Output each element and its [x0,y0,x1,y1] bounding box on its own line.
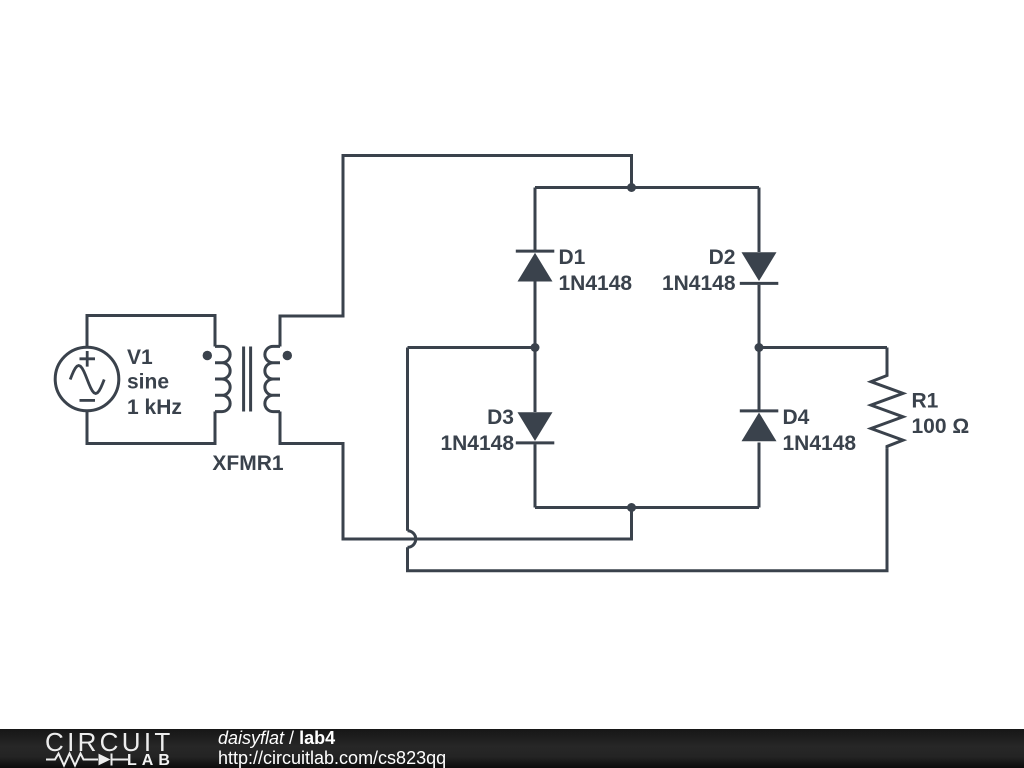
svg-text:1 kHz: 1 kHz [127,396,182,419]
node right mid junction [755,343,764,352]
wire D2 bottom to D4 top [758,285,761,410]
svg-text:R1: R1 [912,390,939,413]
svg-text:D4: D4 [783,406,810,429]
diode D2 [742,252,777,281]
wire secondary bottom to bridge bottom node [280,412,632,540]
wire D1 top lead [534,188,537,251]
svg-text:1N4148: 1N4148 [662,272,736,295]
transformer secondary phase dot [283,351,292,360]
wire hop over crossing [408,531,416,548]
resistor R1 [871,348,903,449]
wire V1 top to primary coil [87,316,215,348]
transformer XFMR1 secondary winding [265,346,280,411]
transformer core [244,347,251,412]
wire D3 bottom lead [534,444,537,507]
transformer XFMR1 primary winding [215,346,230,411]
diode D3 [518,412,553,441]
svg-text:daisyflat / lab4: daisyflat / lab4 [218,728,335,748]
wire left mid rail to node [408,346,536,349]
diode D4 [742,413,777,442]
wire secondary top to bridge top [280,156,632,347]
node bridge bottom junction [627,503,636,512]
wire right mid rail to R1 [759,346,887,349]
wire bridge top rail [535,186,759,189]
svg-text:XFMR1: XFMR1 [212,452,283,475]
wire D2 top lead [758,188,761,253]
logo resistor-diode symbol [46,754,128,766]
node bridge top junction [627,183,636,192]
wire D1 bottom to D3 top [534,282,537,413]
svg-text:1N4148: 1N4148 [783,432,857,455]
transformer primary phase dot [203,351,212,360]
node left mid junction [531,343,540,352]
svg-text:1N4148: 1N4148 [559,272,633,295]
svg-text:D1: D1 [559,246,586,269]
svg-text:100 Ω: 100 Ω [912,415,970,438]
svg-text:http://circuitlab.com/cs823qq: http://circuitlab.com/cs823qq [218,748,446,768]
svg-text:D2: D2 [709,246,736,269]
svg-text:LAB: LAB [127,752,175,768]
wire bottom return rail [408,448,888,570]
wire D4 bottom lead [758,443,761,508]
svg-text:V1: V1 [127,346,153,369]
svg-text:sine: sine [127,371,169,394]
wire bridge bottom rail [535,506,759,509]
diode D1 [518,253,553,282]
svg-text:1N4148: 1N4148 [440,432,514,455]
svg-text:D3: D3 [487,406,514,429]
voltage source V1 [55,347,119,411]
wire V1 bottom to primary coil bottom [87,411,215,444]
wire left output down with hopover [406,348,409,531]
